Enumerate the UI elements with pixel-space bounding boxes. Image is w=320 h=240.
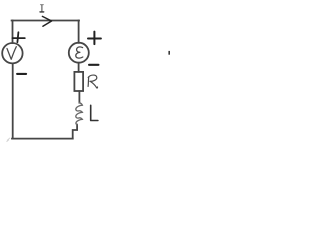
wire top horizontal <box>12 20 79 22</box>
stray mark right edge <box>168 51 170 55</box>
label I <box>40 5 44 12</box>
wire resistor to inductor <box>78 91 80 103</box>
label L <box>91 105 98 120</box>
epsilon glyph <box>76 47 83 58</box>
wire EMF to resistor <box>78 63 80 72</box>
label R <box>88 75 97 88</box>
wire left vertical upper <box>12 21 14 44</box>
current arrow <box>42 16 51 26</box>
V source plus sign <box>13 32 25 42</box>
resistor R body <box>74 72 83 91</box>
EMF minus sign <box>89 64 98 66</box>
inductor L coil <box>76 103 83 125</box>
voltage source V1 circle <box>2 43 22 63</box>
V source minus sign <box>17 73 26 75</box>
EMF plus sign <box>88 32 101 44</box>
wire right vertical upper <box>78 21 80 43</box>
EMF source circle <box>69 43 89 63</box>
wire left vertical lower <box>12 64 14 139</box>
wire jog bottom-right <box>73 125 77 139</box>
wire bottom horizontal <box>12 138 73 140</box>
smudge artifact bottom-left <box>7 138 11 142</box>
V glyph <box>7 47 16 60</box>
